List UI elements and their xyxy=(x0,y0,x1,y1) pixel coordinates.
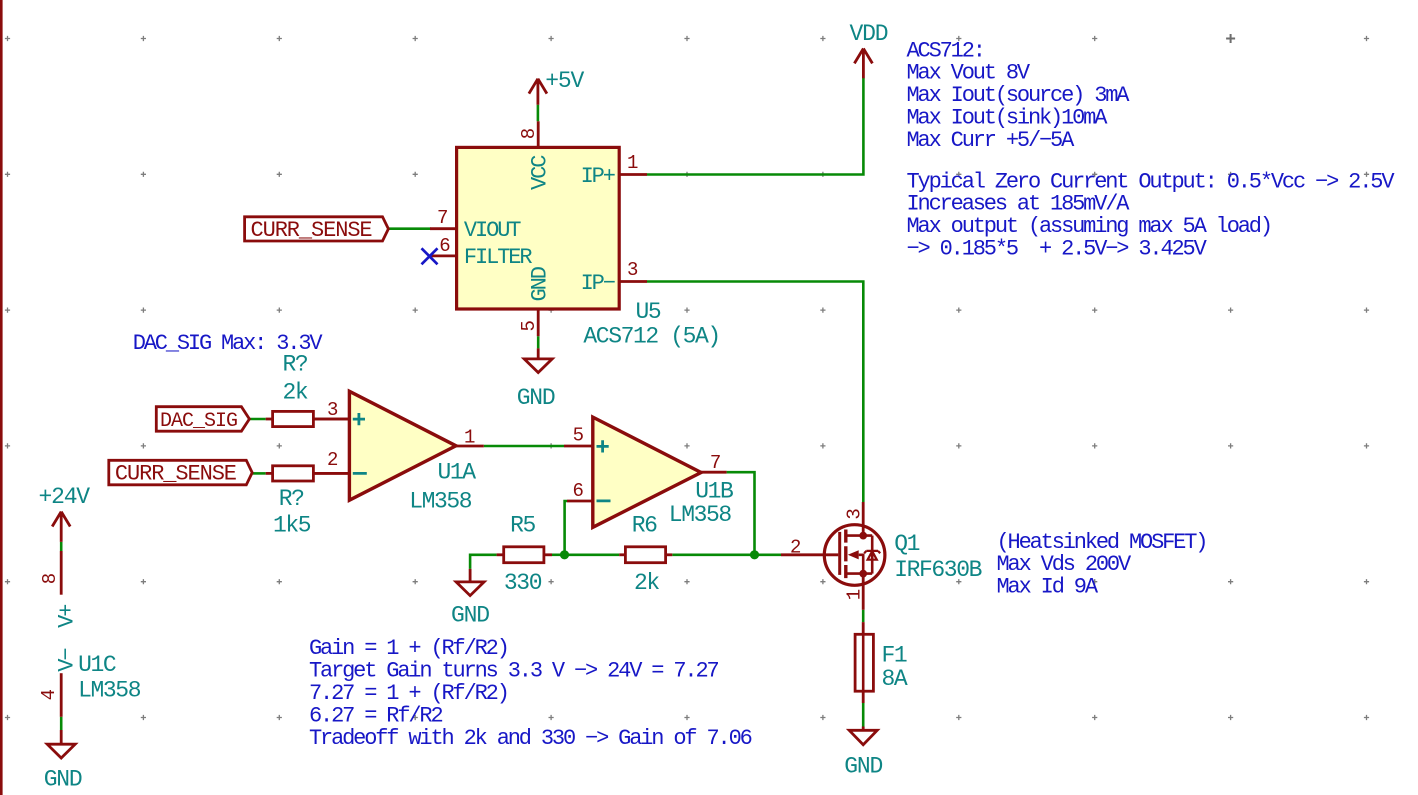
svg-text:V−: V− xyxy=(55,649,80,672)
svg-text:8: 8 xyxy=(39,573,61,584)
svg-text:8: 8 xyxy=(518,128,540,139)
svg-text:GND: GND xyxy=(844,754,882,780)
wire VDD to U5 pin1 (net IP+) xyxy=(647,78,863,175)
svg-text:IP−: IP− xyxy=(581,271,615,296)
svg-text:U1B: U1B xyxy=(695,479,733,505)
note block gain calc xyxy=(309,636,752,751)
U1C pin 8 (V+) xyxy=(60,551,63,595)
node B junction xyxy=(750,550,759,559)
Q1 drain pin 3 xyxy=(862,502,865,536)
power +24V xyxy=(52,512,70,542)
svg-text:(Heatsinked MOSFET): (Heatsinked MOSFET) xyxy=(997,530,1207,555)
resistor R? 1k5 (CURR_SENSE input) xyxy=(266,472,273,475)
wire DAC_SIG label to R? xyxy=(249,418,265,421)
resistor R5 330 xyxy=(497,553,504,556)
op-amp U1B xyxy=(593,417,701,527)
svg-text:V+: V+ xyxy=(55,605,80,628)
wire CURR_SENSE label to R? xyxy=(252,472,266,475)
resistor R? 2k (DAC_SIG input) xyxy=(266,418,273,421)
svg-text:7.27 = 1 + (Rf/R2): 7.27 = 1 + (Rf/R2) xyxy=(309,681,508,706)
U5 pin 8 (VCC) xyxy=(537,121,540,147)
wire CURR_SENSE to U5 pin7 xyxy=(388,227,431,230)
svg-text:IP+: IP+ xyxy=(581,164,615,189)
global label DAC_SIG xyxy=(156,407,249,432)
ground at U5 pin5 xyxy=(524,348,552,372)
svg-text:2: 2 xyxy=(790,537,801,559)
global label CURR_SENSE (to U1A -) xyxy=(109,460,252,485)
svg-text:GND: GND xyxy=(451,602,489,628)
svg-text:VIOUT: VIOUT xyxy=(464,218,521,243)
fuse F1 8A xyxy=(862,622,865,634)
svg-text:CURR_SENSE: CURR_SENSE xyxy=(251,218,373,243)
svg-text:7: 7 xyxy=(437,207,448,229)
wire node A to R6 xyxy=(565,553,620,556)
svg-text:R5: R5 xyxy=(510,513,535,539)
sheet border xyxy=(0,0,3,795)
svg-text:Max Curr +5/−5A: Max Curr +5/−5A xyxy=(907,128,1076,153)
ground at U1C xyxy=(47,730,75,758)
svg-text:1: 1 xyxy=(627,152,638,174)
U1A pin 3 xyxy=(313,418,349,421)
svg-text:Tradeoff with 2k and 330 −> Ga: Tradeoff with 2k and 330 −> Gain of 7.06 xyxy=(309,726,752,751)
ground at R5 xyxy=(456,569,484,596)
svg-text:Max Iout(sink)10mA: Max Iout(sink)10mA xyxy=(907,106,1109,131)
wire U1C pin4 to GND xyxy=(60,717,63,730)
op-amp U5 body (ACS712 box) xyxy=(457,147,620,309)
svg-text:2k: 2k xyxy=(634,570,659,596)
svg-text:U5: U5 xyxy=(636,299,661,325)
svg-text:4: 4 xyxy=(38,689,60,700)
svg-text:Max Id 9A: Max Id 9A xyxy=(997,575,1099,600)
svg-text:U1C: U1C xyxy=(78,652,116,678)
wire GND to R5 xyxy=(470,555,497,569)
power VDD xyxy=(854,49,872,79)
transistor Q1 IRF630B xyxy=(824,525,885,586)
svg-text:−> 0.185*5 + 2.5V−> 3.425V: −> 0.185*5 + 2.5V−> 3.425V xyxy=(907,237,1208,262)
wire F1 to GND xyxy=(862,703,865,727)
U5 pin 3 (IP-) xyxy=(619,280,647,283)
svg-text:3: 3 xyxy=(844,509,866,520)
svg-text:LM358: LM358 xyxy=(669,502,732,528)
wire Q1 source to F1 xyxy=(862,610,865,622)
svg-text:GND: GND xyxy=(517,385,555,411)
svg-text:Max Vout 8V: Max Vout 8V xyxy=(907,61,1031,86)
svg-text:Max Vds 200V: Max Vds 200V xyxy=(997,552,1132,577)
svg-text:1: 1 xyxy=(844,589,866,600)
U1B pin 6 xyxy=(567,500,593,503)
U5 pin 6 (FILTER) xyxy=(430,254,457,257)
svg-text:Target Gain turns 3.3 V −> 24V: Target Gain turns 3.3 V −> 24V = 7.27 xyxy=(309,659,719,684)
wire U5 pin5 to GND xyxy=(537,336,540,348)
U1C pin 4 (V-) xyxy=(60,673,63,717)
svg-text:GND: GND xyxy=(528,266,553,301)
svg-text:Increases at 185mV/A: Increases at 185mV/A xyxy=(907,192,1131,217)
svg-text:CURR_SENSE: CURR_SENSE xyxy=(115,462,237,487)
svg-text:Q1: Q1 xyxy=(894,531,919,557)
svg-text:5: 5 xyxy=(573,425,584,447)
svg-text:VCC: VCC xyxy=(528,155,553,190)
U1A pin 2 xyxy=(313,472,349,475)
resistor R6 2k xyxy=(619,553,625,556)
wire R5 to node A xyxy=(552,553,565,556)
svg-text:ACS712:: ACS712: xyxy=(907,38,984,63)
svg-text:R?: R? xyxy=(279,486,304,512)
no-connect on U5 pin 6 xyxy=(422,248,438,264)
wire +5V to U5 pin8 xyxy=(537,105,540,122)
svg-text:2k: 2k xyxy=(283,380,308,406)
svg-text:330: 330 xyxy=(504,570,542,596)
U1B pin 5 xyxy=(564,445,593,448)
svg-text:6: 6 xyxy=(439,235,450,257)
svg-text:GND: GND xyxy=(44,766,82,792)
svg-text:1: 1 xyxy=(464,427,475,449)
svg-text:6: 6 xyxy=(573,480,584,502)
Q1 gate pin 2 xyxy=(781,553,838,556)
svg-text:LM358: LM358 xyxy=(409,489,472,515)
U5 pin 1 (IP+) xyxy=(619,173,647,176)
svg-text:Gain = 1 + (Rf/R2): Gain = 1 + (Rf/R2) xyxy=(309,636,508,661)
svg-text:R6: R6 xyxy=(632,513,657,539)
wire U5 pin3 to Q1 drain (net IP-) xyxy=(647,282,863,503)
svg-text:Max output (assuming max 5A lo: Max output (assuming max 5A load) xyxy=(907,214,1271,239)
wire U1A out to U1B pin5 xyxy=(484,445,564,448)
svg-text:VDD: VDD xyxy=(850,21,888,47)
wire U1B pin6 to feedback node xyxy=(565,501,567,555)
svg-text:Max Iout(source) 3mA: Max Iout(source) 3mA xyxy=(907,83,1131,108)
svg-text:2: 2 xyxy=(327,449,338,471)
svg-text:F1: F1 xyxy=(882,643,907,669)
svg-text:U1A: U1A xyxy=(438,460,477,486)
Q1 source pin 1 xyxy=(862,574,865,610)
wire node B to Q1 gate xyxy=(755,553,782,556)
note block ACS712 specs xyxy=(907,38,1131,153)
ground at F1 xyxy=(849,727,877,745)
svg-text:DAC_SIG Max: 3.3V: DAC_SIG Max: 3.3V xyxy=(133,331,324,356)
svg-text:1k5: 1k5 xyxy=(273,513,311,539)
svg-text:ACS712 (5A): ACS712 (5A) xyxy=(583,324,719,350)
U1A pin 1 (out) xyxy=(456,445,484,448)
note block zero current output xyxy=(907,169,1396,261)
node A junction xyxy=(560,550,569,559)
svg-text:3: 3 xyxy=(327,399,338,421)
svg-text:DAC_SIG: DAC_SIG xyxy=(160,410,237,433)
svg-text:+24V: +24V xyxy=(39,484,91,510)
svg-text:+5V: +5V xyxy=(545,68,584,94)
global label CURR_SENSE (to U5 VIOUT) xyxy=(245,217,389,241)
wire U1B out to node B xyxy=(727,472,755,555)
svg-text:LM358: LM358 xyxy=(78,677,141,703)
svg-text:FILTER: FILTER xyxy=(464,245,533,270)
svg-text:6.27 = Rf/R2: 6.27 = Rf/R2 xyxy=(309,704,442,729)
U5 pin 7 (VIOUT) xyxy=(430,227,457,230)
U5 pin 5 (GND) xyxy=(537,309,540,336)
svg-text:7: 7 xyxy=(710,452,721,474)
wire R6 to node B xyxy=(672,553,754,556)
U1B pin 7 (out) xyxy=(701,471,727,474)
svg-text:3: 3 xyxy=(627,259,638,281)
svg-text:IRF630B: IRF630B xyxy=(894,557,981,583)
svg-text:5: 5 xyxy=(518,321,540,332)
op-amp U1A xyxy=(349,391,456,500)
note block MOSFET specs xyxy=(997,530,1207,600)
wire +24V to U1C pin8 xyxy=(60,542,63,551)
svg-text:8A: 8A xyxy=(882,666,908,692)
svg-text:Typical Zero Current Output: 0: Typical Zero Current Output: 0.5*Vcc −> … xyxy=(907,169,1396,194)
power +5V xyxy=(529,79,547,105)
